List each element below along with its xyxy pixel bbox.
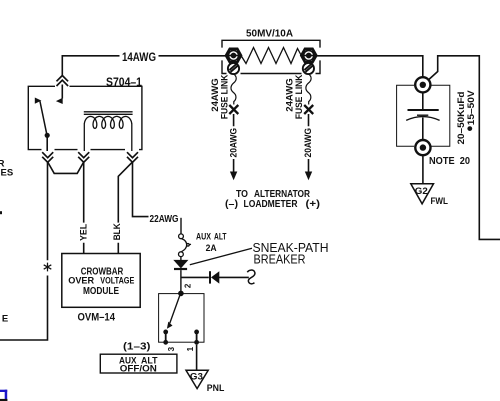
svg-text:22AWG: 22AWG [150, 213, 179, 225]
shunt terminal nut left [226, 49, 241, 62]
svg-text:20AWG: 20AWG [303, 128, 314, 158]
contact 3 post [163, 330, 168, 345]
svg-text:MODULE: MODULE [83, 286, 119, 297]
svg-text:50MV/10A: 50MV/10A [246, 29, 293, 40]
wire left feeder down [0, 162, 48, 340]
wire 20AWG left [233, 114, 235, 172]
wire capacitor to ground [422, 155, 424, 184]
switch arm arrowhead [167, 322, 173, 329]
connector chevron 1 (below relay, left) [42, 152, 53, 162]
svg-text:FUSE LINK: FUSE LINK [294, 75, 305, 120]
svg-text:2: 2 [183, 283, 192, 288]
svg-text:1: 1 [186, 346, 195, 351]
wire into relay from top connector [61, 85, 63, 99]
svg-text:E: E [2, 314, 8, 325]
wire break curl [247, 270, 255, 284]
wire terminal to plate [422, 93, 424, 111]
fuse link X right [304, 105, 313, 114]
svg-text:3: 3 [167, 346, 176, 351]
svg-text:LOADMETER: LOADMETER [244, 198, 298, 210]
wire plate to bottom terminal [422, 118, 424, 141]
relay S704-1 box [28, 86, 142, 149]
capacitor mid tick [417, 114, 428, 116]
connector chevrons at relay top [57, 76, 69, 87]
capacitor curved plate [406, 117, 439, 121]
switch junction dot [178, 291, 184, 297]
svg-text:IES: IES [0, 168, 13, 179]
fuse link squiggle wire left [231, 74, 236, 105]
svg-text:(1–3): (1–3) [123, 341, 151, 352]
left edge tiny mark [0, 211, 2, 214]
screw terminal left [228, 63, 239, 74]
screw terminal right [303, 63, 314, 74]
capacitor box [397, 85, 450, 146]
svg-text:ALT: ALT [214, 232, 227, 243]
contact arrowhead (arm side) [35, 98, 42, 104]
svg-text:G3: G3 [190, 372, 203, 383]
arrow to alternator left [230, 172, 237, 181]
wire 20AWG right [308, 114, 310, 172]
blocking diode (left) on cross wire [181, 271, 249, 283]
ground G3 triangle [186, 370, 208, 388]
connector chevron 2 (below relay, coil left) [78, 152, 89, 162]
svg-text:(+): (+) [306, 198, 321, 210]
blue link glyph fragment [0, 390, 7, 401]
svg-text:YEL: YEL [79, 224, 90, 241]
svg-text:BREAKER: BREAKER [254, 251, 306, 266]
black fragment bottom edge [0, 399, 7, 401]
svg-text:15–50V: 15–50V [466, 90, 477, 126]
switch arm to contact 3 [170, 296, 180, 324]
sneak-path breaker diode (down) [173, 257, 188, 294]
fuse link X left [229, 105, 238, 114]
svg-text:NOTE 20: NOTE 20 [429, 156, 470, 167]
label 15-50V with bullet [466, 90, 477, 131]
wire 22AWG label to fuse [180, 218, 182, 234]
shunt bracket box [222, 40, 320, 73]
relay coil core lines [84, 112, 133, 115]
svg-text:(–): (–) [225, 198, 238, 210]
leader line to sneak-path breaker [190, 248, 252, 264]
shunt terminal nut right [301, 49, 316, 62]
shunt resistor zigzag [241, 48, 301, 64]
aux alt switch box [159, 294, 204, 343]
svg-text:G2: G2 [415, 186, 428, 197]
fuse AUX ALT 2A [179, 234, 192, 257]
aux alt off/on placard box [100, 354, 177, 373]
wire 22AWG branch [133, 162, 149, 217]
wire pivot to box bottom [46, 135, 48, 151]
relay switch arm [40, 101, 47, 135]
svg-text:2A: 2A [206, 243, 217, 254]
relay coil [84, 116, 132, 128]
coil right lead [131, 124, 133, 152]
svg-text:14AWG: 14AWG [122, 52, 156, 64]
capacitor bottom terminal [415, 140, 430, 155]
wire 14AWG from relay to shunt [62, 56, 226, 76]
wire branch to right bus [429, 56, 500, 240]
fuse link squiggle wire right [306, 74, 311, 105]
svg-text:OVM–14: OVM–14 [78, 311, 116, 323]
crowbar over voltage module box [62, 254, 140, 308]
relay arm pivot dot [45, 133, 50, 138]
svg-text:FWL: FWL [431, 196, 449, 206]
ground G2 triangle [411, 184, 434, 204]
coil left lead [83, 124, 85, 152]
wire BLK to crowbar [118, 162, 132, 253]
wire loop linking chevron1 and chevron2 [48, 162, 84, 173]
arrow to alternator right [305, 172, 312, 181]
connector chevron 3 (below relay, coil right) [127, 152, 138, 162]
svg-text:FUSE LINK: FUSE LINK [220, 75, 231, 120]
wire YEL to crowbar [83, 162, 85, 253]
svg-text:AUX: AUX [196, 232, 211, 243]
svg-text:OFF/ON: OFF/ON [120, 363, 157, 374]
asterisk splice note [44, 263, 52, 272]
wire shunt to capacitor junction [316, 56, 423, 77]
svg-text:PNL: PNL [207, 383, 225, 393]
svg-text:20AWG: 20AWG [228, 128, 239, 158]
svg-text:BLK: BLK [112, 223, 123, 240]
capacitor plate top [408, 109, 439, 111]
wire contact 1 to ground [196, 345, 198, 370]
contact 1 post [194, 330, 199, 345]
capacitor top terminal [415, 77, 430, 92]
contact arrowhead (wire side) [56, 98, 63, 104]
